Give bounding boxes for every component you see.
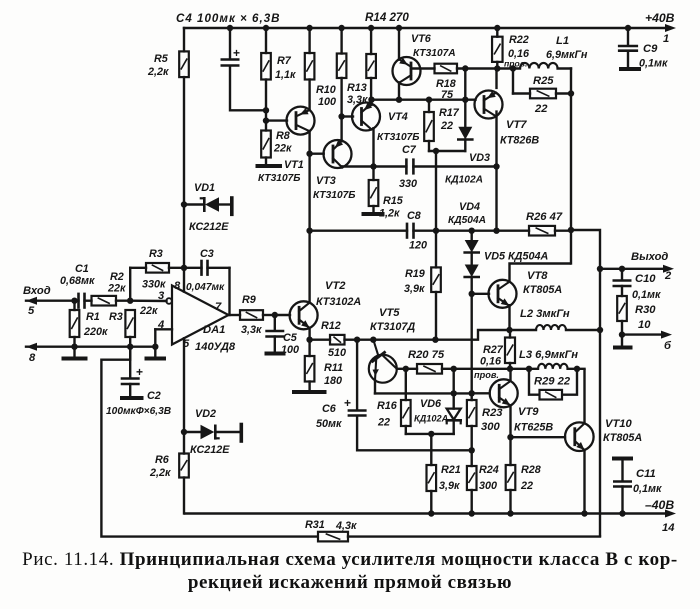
diode VD1 (184, 197, 232, 214)
wire VT9 emitter (509, 406, 511, 465)
wire bias row (371, 98, 475, 100)
label R17 (439, 107, 460, 132)
wire R7-R8 (265, 80, 267, 131)
svg-text:4: 4 (157, 319, 165, 331)
diode VD5 (465, 253, 479, 294)
svg-text:Вход: Вход (23, 285, 51, 297)
node rail R13 (338, 25, 344, 31)
svg-text:100мкФ×6,3В: 100мкФ×6,3В (106, 406, 171, 417)
wire VT1 base (266, 119, 287, 121)
wire C9 bottom (621, 51, 639, 69)
svg-text:–40В: –40В (645, 498, 674, 512)
svg-text:R14 270: R14 270 (365, 11, 409, 24)
wire VT5 collector (397, 368, 406, 370)
svg-text:300: 300 (479, 480, 497, 492)
svg-text:300: 300 (481, 421, 500, 433)
svg-text:7: 7 (215, 301, 222, 313)
label VT3 (313, 175, 356, 201)
wire VT5 emitter (375, 380, 472, 393)
node VT7e row (493, 228, 499, 234)
label -40V (645, 498, 674, 512)
transistor VT4 (352, 102, 380, 130)
wire R24 bottom (469, 490, 475, 517)
svg-text:С3: С3 (200, 248, 214, 260)
pin 3 label (158, 290, 165, 302)
node rail R10 (306, 25, 312, 31)
svg-text:22к: 22к (139, 305, 158, 317)
node C4 join (263, 107, 269, 113)
resistor R21 (427, 434, 437, 517)
wire wireB right (454, 368, 538, 370)
label C4 (176, 12, 281, 25)
svg-text:VD1: VD1 (194, 182, 215, 194)
wire R18-node (457, 67, 497, 69)
node VD1 (181, 201, 187, 207)
node pin4 gnd (152, 344, 158, 350)
node rail R7 (263, 25, 269, 31)
node trunk R26 (568, 227, 574, 233)
wire VD3 column (464, 69, 466, 127)
inductor L3 (538, 364, 585, 369)
label R3 input (109, 305, 158, 323)
label R1 (83, 311, 108, 338)
pin 8 label (174, 280, 181, 292)
node R27 bottom (507, 366, 513, 372)
label VT5 (370, 307, 415, 333)
node VT7 base (462, 97, 468, 103)
inductor L1 (497, 63, 571, 69)
wire trunk right upper (570, 69, 572, 231)
node VT5 base (370, 337, 376, 343)
resistor R30 (617, 296, 627, 321)
node VD6 top (451, 366, 457, 372)
node R25 right (568, 90, 574, 96)
svg-text:330к: 330к (142, 279, 166, 291)
node R21 top (428, 431, 434, 437)
label Vyhod (631, 251, 668, 263)
svg-text:КТ3107Б: КТ3107Б (377, 132, 420, 143)
node rail C9 (625, 25, 631, 31)
svg-text:VD6: VD6 (420, 398, 442, 410)
wire C4 stub (227, 25, 233, 59)
resistor R22 (492, 37, 503, 62)
svg-text:б: б (664, 340, 672, 352)
svg-text:R23: R23 (482, 407, 503, 419)
node VD6 mid (451, 390, 457, 396)
wire VT8 collector (510, 264, 572, 283)
capacitor C4 (222, 46, 240, 66)
diode VD4 (465, 231, 479, 253)
svg-text:КТ3102А: КТ3102А (316, 296, 361, 308)
resistor R27 (505, 330, 515, 369)
node R9 out (272, 312, 278, 318)
svg-text:R12: R12 (321, 320, 341, 332)
svg-text:КД504А: КД504А (448, 215, 486, 226)
label R6 (149, 454, 171, 479)
svg-text:0,16: 0,16 (480, 356, 502, 368)
node VT8 base (469, 291, 475, 297)
label C10 (632, 273, 661, 301)
wire R10-VT1 (308, 80, 310, 111)
svg-text:КТ625В: КТ625В (514, 422, 553, 434)
svg-text:DA1: DA1 (203, 324, 225, 336)
node R29 left (526, 366, 532, 372)
svg-text:R21: R21 (441, 464, 461, 476)
svg-text:22: 22 (377, 417, 390, 429)
label VT2 (316, 280, 361, 308)
svg-text:VT5: VT5 (379, 307, 400, 319)
svg-text:С6: С6 (322, 403, 337, 415)
svg-text:VT10: VT10 (605, 418, 633, 430)
svg-text:22к: 22к (107, 283, 126, 295)
ground pin4 (147, 347, 165, 359)
label C6 (316, 403, 342, 430)
wire VT9 collector (509, 369, 511, 381)
pin 4 label (157, 319, 165, 331)
node VT10 base (507, 434, 513, 440)
node R16 top (403, 366, 409, 372)
svg-text:С7: С7 (402, 144, 417, 156)
resistor R18 (435, 64, 458, 74)
svg-text:R11: R11 (324, 362, 343, 374)
label R16 (377, 400, 398, 429)
svg-text:VT4: VT4 (388, 111, 408, 123)
wire VT10 collector (583, 369, 585, 423)
wire VT7 bottom (495, 112, 497, 231)
svg-text:R27: R27 (483, 344, 504, 356)
resistor R1 (70, 301, 80, 347)
svg-text:2,2к: 2,2к (147, 66, 169, 78)
wire VT2 base (275, 314, 290, 316)
wire R13 top (340, 28, 342, 54)
node b (619, 331, 625, 337)
pin 5 label (183, 338, 190, 350)
label VT8 (523, 270, 562, 296)
resistor R29 (529, 369, 577, 400)
svg-text:22: 22 (440, 120, 453, 132)
wire loop right (348, 535, 600, 537)
svg-text:КС212Е: КС212Е (189, 221, 229, 233)
wire fb riser (129, 268, 131, 301)
node R15 top (370, 163, 376, 169)
label VT6 (411, 33, 456, 59)
label R21 (439, 464, 461, 492)
wire VT6 top (398, 28, 400, 60)
wire R14 top (370, 28, 372, 54)
wire R13-VT3 (340, 78, 343, 141)
plus C2 (136, 365, 143, 379)
svg-text:2,2к: 2,2к (149, 467, 171, 479)
pin 8 lower (29, 352, 36, 364)
svg-text:VD2: VD2 (195, 408, 216, 420)
svg-text:R16: R16 (377, 400, 398, 412)
svg-text:180: 180 (324, 375, 342, 387)
svg-text:R1: R1 (86, 311, 100, 323)
wire fb top (130, 267, 146, 269)
node VD4 row (469, 228, 475, 234)
wire R3-node (169, 267, 202, 269)
svg-text:120: 120 (409, 240, 427, 252)
wire pin4 (155, 329, 172, 346)
label R3 fb (142, 248, 166, 291)
label VT9 (514, 406, 553, 434)
inductor L2 (510, 325, 601, 330)
label L2 (520, 308, 570, 320)
pin 2 (664, 270, 672, 282)
capacitor C1 (79, 294, 85, 308)
label +40V (645, 11, 675, 25)
svg-text:14: 14 (662, 522, 675, 534)
svg-text:R13: R13 (347, 82, 367, 94)
node VT8 emitter (506, 327, 512, 333)
resistor R28 (506, 465, 516, 517)
wire row230 left (310, 229, 407, 231)
svg-text:10: 10 (638, 319, 651, 331)
wire R22 top (496, 28, 498, 37)
svg-text:R9: R9 (242, 294, 256, 306)
wire C3-out (208, 268, 230, 315)
label L1 (546, 35, 588, 61)
label R14 (365, 11, 409, 24)
label R20 (408, 349, 445, 361)
svg-text:L1: L1 (556, 35, 569, 47)
wire VT3 base (310, 152, 324, 154)
svg-text:1,2к: 1,2к (379, 208, 400, 220)
node inv input (127, 298, 133, 304)
wire VT1-VT2 column (308, 131, 310, 302)
svg-text:R8: R8 (276, 130, 290, 142)
label C7 (399, 144, 417, 190)
wire VT2 emitter (308, 328, 310, 356)
svg-text:1,1к: 1,1к (275, 69, 296, 81)
transistor VT1 (287, 107, 315, 135)
node rail VT6 (396, 25, 402, 31)
wire C4 elbow (230, 66, 266, 111)
svg-text:КТ805А: КТ805А (603, 432, 642, 444)
node out (597, 266, 603, 272)
label R19 (404, 268, 425, 295)
label R25 (533, 75, 554, 115)
terminal b arrow (622, 331, 672, 339)
resistor R6 (179, 454, 189, 478)
wire VT6 base (411, 67, 435, 69)
label C9 (639, 43, 668, 70)
wire R10 top (308, 28, 310, 53)
transistor VT8 (489, 280, 517, 308)
label R31 (305, 519, 357, 532)
svg-text:75: 75 (441, 89, 454, 101)
wire C2 bottom (122, 384, 142, 398)
label C2 (106, 390, 171, 417)
node rail R14 (368, 25, 374, 31)
caption line 1 (0, 549, 700, 571)
svg-text:3: 3 (158, 290, 165, 302)
wire -40V bottom rail (184, 512, 668, 514)
capacitor C6 (344, 396, 365, 416)
resistor R20 (406, 364, 454, 374)
svg-text:R26 47: R26 47 (526, 211, 563, 223)
node C8 col top (433, 148, 439, 154)
power +40V arrow (665, 24, 676, 32)
label R28 (520, 464, 541, 492)
capacitor C10 (614, 269, 630, 296)
svg-text:R5: R5 (154, 53, 169, 65)
resistor R13 (337, 54, 347, 79)
svg-text:R17: R17 (439, 107, 460, 119)
svg-text:С1: С1 (75, 263, 89, 275)
label C1 (60, 263, 95, 287)
pin 5 input (28, 305, 35, 317)
svg-text:R3: R3 (149, 248, 163, 260)
node VD1 col (181, 265, 187, 271)
node R1 top (71, 298, 77, 304)
svg-text:С9: С9 (643, 43, 658, 55)
svg-text:VT9: VT9 (518, 406, 539, 418)
label R26 (526, 211, 563, 223)
node R25 left (510, 65, 516, 71)
wire R2-node (116, 300, 130, 302)
wire R14 bottom (370, 78, 372, 100)
svg-text:С10: С10 (635, 273, 656, 285)
label R13 (347, 82, 368, 106)
svg-text:R19: R19 (405, 268, 425, 280)
svg-text:VD5 КД504А: VD5 КД504А (484, 251, 548, 263)
label Vhod (23, 285, 51, 297)
node trunk L2 (597, 327, 603, 333)
ground input left (64, 347, 86, 359)
svg-text:3,9к: 3,9к (439, 480, 460, 492)
wire VT7 top (495, 69, 497, 88)
svg-text:КД102А: КД102А (445, 175, 483, 186)
svg-text:R2: R2 (110, 271, 124, 283)
capacitor C3 (202, 261, 208, 275)
node VT2 col top (306, 228, 312, 234)
node VT1 base (263, 117, 269, 123)
transistor VT3 (324, 140, 352, 168)
wire R19 bottom (435, 292, 437, 340)
node R22 (494, 65, 500, 71)
svg-text:0,68мк: 0,68мк (60, 275, 95, 287)
label R9 (241, 294, 262, 336)
power -40V arrow (665, 510, 676, 518)
resistor R3 input (125, 310, 135, 347)
terminal arrow 8 (26, 343, 156, 351)
svg-text:22к: 22к (273, 143, 292, 155)
resistor R11 (294, 356, 325, 392)
label VD3 (445, 152, 490, 186)
ground C10 (615, 335, 631, 348)
wire VT9 base (472, 392, 490, 394)
resistor R7 (261, 53, 271, 80)
svg-text:+: + (233, 46, 240, 60)
pin 7 label (215, 301, 222, 313)
resistor R31 (318, 532, 348, 542)
svg-text:Выход: Выход (631, 251, 668, 263)
wire trunk drop (570, 230, 572, 264)
node R12 (306, 337, 312, 343)
svg-text:КТ3107Б: КТ3107Б (313, 190, 356, 201)
node C6 join (469, 447, 475, 453)
label VT4 (377, 111, 420, 143)
svg-text:4,3к: 4,3к (335, 520, 357, 532)
transistor VT6 (393, 57, 421, 85)
wire VT3c row (342, 165, 406, 167)
svg-text:50мк: 50мк (316, 418, 342, 430)
svg-text:510: 510 (328, 347, 346, 359)
transistor VT10 (565, 422, 594, 451)
node C10 (619, 266, 625, 272)
capacitor C11 (614, 459, 631, 517)
svg-text:+: + (344, 396, 351, 410)
svg-text:С4 100мк × 6,3В: С4 100мк × 6,3В (176, 12, 281, 25)
wire pin5 column (183, 338, 185, 513)
wire R5 column (183, 28, 185, 292)
resistor R17 (424, 97, 434, 152)
wire row230 right (414, 229, 530, 231)
svg-text:6,9мкГн: 6,9мкГн (546, 49, 588, 61)
wire emitter row (357, 330, 509, 340)
wire VT10 emitter (581, 450, 587, 517)
resistor R9 (229, 310, 275, 320)
resistor R8 (261, 131, 271, 158)
wire C6 column (356, 340, 358, 410)
svg-text:С5: С5 (283, 332, 298, 344)
wire node-opamp (130, 300, 166, 303)
label VD4 (448, 201, 486, 226)
label R24 (479, 464, 499, 492)
capacitor C7 (406, 160, 413, 174)
svg-text:КТ3107Б: КТ3107Б (258, 173, 301, 184)
transistor VT7 (475, 91, 503, 119)
svg-text:КТ3107А: КТ3107А (413, 48, 456, 59)
diode VD6 (447, 369, 461, 434)
label VT1 (258, 159, 304, 184)
label R7 (275, 55, 296, 81)
svg-text:пров.: пров. (474, 370, 499, 380)
wire VT3 collector (341, 167, 343, 168)
svg-text:КТ826В: КТ826В (500, 135, 539, 147)
svg-text:VD4: VD4 (459, 201, 480, 213)
svg-text:220к: 220к (83, 326, 108, 338)
label VT10 (603, 418, 642, 444)
svg-text:VT1: VT1 (284, 159, 304, 171)
wire VT6 bottom (396, 82, 402, 103)
node VD3 top (462, 65, 468, 71)
resistor R25 (513, 69, 571, 99)
label R30 (635, 304, 656, 331)
svg-text:330: 330 (399, 178, 417, 190)
svg-text:8: 8 (29, 352, 36, 364)
wire VT8 base (472, 293, 489, 295)
node C6 top (354, 337, 360, 343)
svg-text:R29 22: R29 22 (534, 376, 571, 388)
wire VT10 base (511, 436, 566, 438)
svg-text:R7: R7 (277, 55, 292, 67)
svg-text:140УД8: 140УД8 (195, 341, 236, 353)
svg-text:100: 100 (318, 96, 336, 108)
svg-text:R20 75: R20 75 (408, 349, 445, 361)
label C11 (633, 468, 662, 495)
label VD5 (484, 251, 548, 263)
wire loop left (101, 347, 318, 537)
svg-text:КС212Е: КС212Е (190, 444, 230, 456)
wire +40V top rail (184, 27, 668, 29)
label R29 (534, 376, 571, 388)
wire R7 top (265, 28, 267, 53)
wire R22 bottom (496, 62, 498, 69)
svg-text:100: 100 (281, 344, 299, 356)
transistor VT9 (490, 379, 518, 407)
